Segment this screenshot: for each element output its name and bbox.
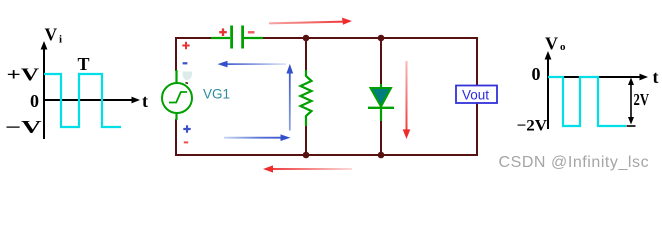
resistor R1 bottom wire: [305, 126, 307, 155]
svg-text:T: T: [78, 54, 90, 74]
svg-text:V: V: [45, 25, 58, 45]
svg-text:t: t: [142, 91, 148, 111]
resistor R1 body: [301, 70, 312, 126]
source VG1 waveform symbol: [169, 92, 187, 103]
label Vo: [545, 34, 566, 54]
wire top (right segment): [261, 37, 478, 39]
label t (right graph): [653, 67, 659, 87]
wire left vertical (lower): [175, 119, 177, 156]
svg-text:V: V: [545, 34, 558, 54]
label Vi: [45, 25, 63, 46]
junction node top-left: [303, 35, 310, 42]
input square wave Vi: [44, 74, 121, 127]
wire bottom: [175, 154, 478, 156]
source VG1 top lead: [175, 70, 177, 83]
blue arrow bottom (loop right): [224, 134, 291, 141]
output square wave Vout: [548, 77, 626, 126]
label t (left graph): [142, 91, 148, 111]
label 0 (left graph): [30, 91, 39, 111]
blue arrow up (loop through resistor): [286, 64, 293, 131]
diode D1 bottom lead: [380, 108, 382, 121]
capacitor C1 leads: [211, 37, 263, 39]
faint blob artifact: [182, 72, 192, 81]
label +V: [7, 65, 40, 85]
wire top (left segment): [175, 37, 213, 39]
red arrow right (current down): [403, 61, 411, 139]
red arrow bottom (current left): [263, 165, 352, 172]
svg-text:i: i: [59, 34, 62, 46]
svg-text:0: 0: [532, 64, 541, 84]
source plus label (top, red): [182, 42, 189, 49]
left graph horizontal axis t: [44, 97, 140, 104]
diode D1 triangle: [371, 88, 392, 107]
svg-text:VG1: VG1: [203, 87, 230, 102]
svg-text:+V: +V: [7, 65, 40, 85]
junction node top-right: [378, 35, 385, 42]
label -V: [5, 117, 42, 137]
svg-text:−V: −V: [5, 117, 42, 137]
source plus label (bottom, blue): [183, 125, 190, 132]
source VG1 bottom lead: [175, 113, 177, 120]
dimension arrow 2V: [627, 78, 636, 127]
source VG1 circle: [162, 83, 192, 113]
diode D1 top wire: [380, 38, 382, 86]
junction node bottom-left: [303, 152, 310, 159]
junction node bottom-right: [378, 152, 385, 159]
label 0 (right graph): [532, 64, 541, 84]
red arrow top (current right): [269, 18, 352, 25]
right graph horizontal axis t: [548, 74, 648, 81]
circle top smudge: [186, 82, 189, 85]
watermark CSDN: [499, 154, 650, 171]
svg-text:2V: 2V: [634, 90, 650, 109]
svg-text:0: 0: [30, 91, 39, 111]
source minus label (bottom, red): [184, 141, 188, 143]
diode D1 cathode bar: [368, 107, 394, 109]
capacitor plus label: [219, 28, 227, 36]
resistor R1 top wire: [305, 38, 307, 71]
svg-text:−2V: −2V: [517, 118, 548, 135]
diode D1 bottom wire: [380, 121, 382, 155]
wire right vertical: [476, 37, 478, 156]
svg-text:CSDN @Infinity_lsc: CSDN @Infinity_lsc: [499, 154, 650, 171]
svg-text:t: t: [653, 67, 659, 87]
source minus label (top, blue): [183, 62, 188, 64]
capacitor minus label: [248, 31, 255, 33]
svg-text:o: o: [560, 41, 566, 53]
left graph vertical axis Vi: [41, 41, 48, 139]
label 2V: [634, 90, 650, 109]
label VG1: [203, 87, 230, 102]
wire left vertical (upper): [175, 37, 177, 71]
Vout box: [456, 86, 497, 104]
svg-text:Vout: Vout: [462, 88, 489, 103]
label T: [78, 54, 90, 74]
right graph vertical axis Vo: [545, 51, 552, 129]
label -2V: [517, 118, 548, 135]
blue arrow top (loop left): [218, 61, 287, 68]
diode D1 top lead: [380, 84, 382, 90]
capacitor C1 plates: [232, 26, 243, 49]
